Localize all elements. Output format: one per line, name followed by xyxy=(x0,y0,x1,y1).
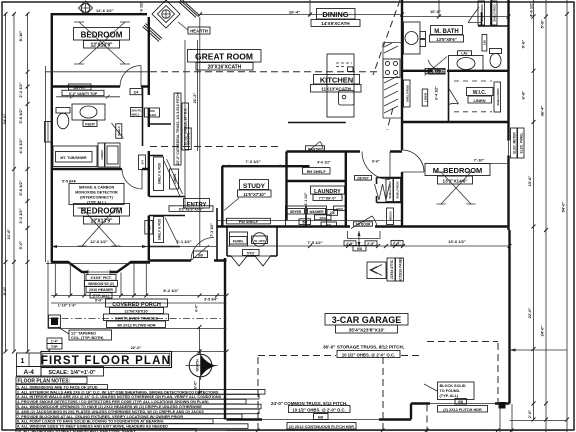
svg-text:2/8 PKT: 2/8 PKT xyxy=(357,176,369,180)
svg-text:8'-2 1/4": 8'-2 1/4" xyxy=(163,288,178,293)
svg-text:2'-8": 2'-8" xyxy=(393,241,401,245)
wall bath/bedroom3 xyxy=(51,168,150,170)
note 10 xyxy=(16,429,196,432)
door pantry xyxy=(309,142,323,151)
dim line top great room-dining xyxy=(200,14,402,16)
svg-text:SHELF/ROD: SHELF/ROD xyxy=(492,4,496,22)
svg-text:22'-0": 22'-0" xyxy=(131,345,142,350)
svg-text:4'X3'6" PICT.: 4'X3'6" PICT. xyxy=(90,276,111,280)
svg-text:3'-5 3/4": 3'-5 3/4" xyxy=(204,298,218,302)
svg-text:12'-6 1/2": 12'-6 1/2" xyxy=(90,239,108,244)
dim line left outer xyxy=(5,13,7,352)
label linen rotated wic xyxy=(422,89,428,106)
dim extension line left interior xyxy=(45,66,47,262)
door garage house xyxy=(351,216,377,229)
front door panel and arc xyxy=(191,238,214,261)
svg-text:(TYP. ALL): (TYP. ALL) xyxy=(440,394,460,398)
svg-text:SHELF/ROD: SHELF/ROD xyxy=(480,4,484,22)
door tag 5/6 hall xyxy=(299,219,311,225)
svg-text:(TYP. ALL): (TYP. ALL) xyxy=(93,294,110,298)
svg-text:PAN: PAN xyxy=(320,216,326,220)
wall mbath/wic xyxy=(402,70,509,72)
svg-text:LIN: LIN xyxy=(483,40,487,45)
svg-text:NORTH: NORTH xyxy=(196,359,200,372)
svg-text:6. AND (2) JACKS/KINGS IN 2X6: 6. AND (2) JACKS/KINGS IN 2X6 PLATES UNL… xyxy=(17,410,204,414)
wall wic/mbedroom xyxy=(402,121,509,123)
svg-text:LINEN: LINEN xyxy=(474,98,486,103)
mbath toilet xyxy=(490,49,502,68)
svg-text:COL. (TYP. BOTH): COL. (TYP. BOTH) xyxy=(71,336,104,340)
room label bedroom 3 xyxy=(74,204,130,247)
dim line garage top xyxy=(227,245,510,247)
wall garage south west segment xyxy=(227,418,412,420)
label pantry xyxy=(306,146,325,152)
rotated dim texts left column xyxy=(2,30,23,295)
room label 3-car garage xyxy=(325,314,408,334)
sheet ref bubble xyxy=(17,353,42,367)
dim ticks right xyxy=(532,12,570,422)
svg-text:7'7"X6'-0": 7'7"X6'-0" xyxy=(319,197,337,201)
room label kitchen xyxy=(311,75,362,93)
label rh shelf xyxy=(303,168,331,175)
svg-text:4'-0 1/2": 4'-0 1/2" xyxy=(18,138,23,153)
label covered porch xyxy=(104,299,169,328)
ceiling fan symbol bedroom 2 xyxy=(79,1,93,15)
door tag 2/8 pkt hall xyxy=(355,176,372,181)
svg-text:SHELF/ROD: SHELF/ROD xyxy=(496,88,500,106)
svg-text:12'-6 1/2": 12'-6 1/2" xyxy=(96,8,114,13)
note 8 xyxy=(16,419,213,424)
toilet bath2 xyxy=(56,108,70,129)
wall hall west thin xyxy=(184,40,186,208)
linen closet washer dryer xyxy=(98,143,120,167)
svg-text:8'-10": 8'-10" xyxy=(18,30,23,41)
label shelf rod lower closet xyxy=(145,217,178,245)
scale label xyxy=(41,367,104,377)
svg-text:5'-5 AFF: 5'-5 AFF xyxy=(62,180,77,184)
svg-text:7'-10": 7'-10" xyxy=(474,158,485,163)
svg-text:TYP.: TYP. xyxy=(51,345,58,349)
mbath tub xyxy=(404,22,426,54)
door tag 2/4 bath xyxy=(130,89,142,95)
svg-text:3. ALL INTERIOR WALLS ARE 2X4: 3. ALL INTERIOR WALLS ARE 2X4 @ 16" O.C.… xyxy=(17,395,222,399)
bath wc closet door xyxy=(112,123,124,139)
svg-text:SCALE: 1/4"=1'-0": SCALE: 1/4"=1'-0" xyxy=(48,370,96,376)
mech triangles xyxy=(231,256,271,266)
wall garage south east segment xyxy=(411,402,510,404)
svg-text:WALL: WALL xyxy=(132,113,141,117)
svg-text:2/8: 2/8 xyxy=(327,223,332,227)
mbr closet walls xyxy=(377,178,403,203)
dim line bottom long xyxy=(226,430,567,432)
dim line right mid xyxy=(545,0,547,432)
svg-text:7'-3 1/2": 7'-3 1/2" xyxy=(210,223,214,237)
label attic access rotated xyxy=(367,257,404,282)
svg-text:5'-8": 5'-8" xyxy=(540,20,545,29)
svg-text:1'-4": 1'-4" xyxy=(51,340,59,344)
garage overhead door 1 dashed track xyxy=(258,356,420,432)
svg-text:6/8: 6/8 xyxy=(458,400,463,404)
wall bedroom2 east / hall xyxy=(148,17,150,261)
dim line mbedroom xyxy=(448,163,509,165)
svg-text:11'5"X7'10": 11'5"X7'10" xyxy=(243,192,266,197)
svg-text:SMOKE & CARBON: SMOKE & CARBON xyxy=(79,186,115,190)
door wic closet xyxy=(449,88,459,105)
svg-text:VENT: VENT xyxy=(85,123,96,127)
fireplace hearth diamond xyxy=(152,0,180,28)
tub bath2 xyxy=(53,146,97,167)
kitchen counter edge xyxy=(383,43,402,119)
wall top bedroom2 xyxy=(51,13,147,15)
svg-text:W.I.C.: W.I.C. xyxy=(473,90,487,96)
svg-text:SHELF & ROD: SHELF & ROD xyxy=(158,218,162,240)
label hall door 6/0 xyxy=(185,128,191,150)
floor plan notes heading xyxy=(16,377,87,385)
svg-text:W/ 2X12 PLYWD HDR: W/ 2X12 PLYWD HDR xyxy=(117,323,156,327)
wall laundry east xyxy=(345,152,347,227)
svg-text:5'-0": 5'-0" xyxy=(18,241,23,250)
svg-text:9'-6": 9'-6" xyxy=(521,40,526,49)
svg-text:KITCHEN: KITCHEN xyxy=(320,76,353,85)
wall garage east xyxy=(508,230,510,404)
window ticks right wall xyxy=(507,140,510,156)
title first floor plan xyxy=(41,352,172,368)
svg-text:ELEC. METER: ELEC. METER xyxy=(512,132,516,154)
svg-text:24'-0": 24'-0" xyxy=(540,325,545,336)
svg-text:SHELF/ROD: SHELF/ROD xyxy=(405,84,409,102)
garage overhead door 2 dashed track xyxy=(427,342,498,432)
door tag 2/8 laundry xyxy=(327,210,338,216)
svg-text:FLOOR PLAN NOTES:: FLOOR PLAN NOTES: xyxy=(18,379,71,385)
dim line garage right xyxy=(510,349,568,351)
linen strip mbath xyxy=(482,35,487,52)
dim line left mid xyxy=(13,13,15,352)
svg-text:DRYER: DRYER xyxy=(290,210,302,214)
svg-text:2/4: 2/4 xyxy=(141,160,145,165)
svg-text:PW SHELF: PW SHELF xyxy=(239,220,259,224)
dim line porch upper xyxy=(51,295,227,297)
sheet number a-4 xyxy=(17,367,42,377)
svg-text:BEDROOM: BEDROOM xyxy=(81,31,123,40)
wall left exterior xyxy=(51,13,53,262)
ceiling line bedroom2 thin xyxy=(45,71,150,73)
svg-text:1'-10" 1'-6": 1'-10" 1'-6" xyxy=(58,304,77,308)
wall house/garage long xyxy=(217,225,510,227)
svg-text:13'5"X9'6": 13'5"X9'6" xyxy=(436,37,456,42)
vanity sink bath2 xyxy=(72,104,105,127)
svg-text:26'-4": 26'-4" xyxy=(289,10,300,15)
svg-text:1: 1 xyxy=(21,358,25,365)
rotated tag mech garage xyxy=(387,208,394,225)
dim line top mbath xyxy=(403,0,509,17)
dim line entry xyxy=(150,246,217,248)
svg-text:4. PROVIDE SMOKE DETECTORS / C: 4. PROVIDE SMOKE DETECTORS / CO DETECTOR… xyxy=(17,400,209,404)
door tag mbath pocket xyxy=(425,69,445,74)
wall garage jog xyxy=(410,404,412,420)
room label entry xyxy=(169,199,213,212)
svg-text:1. ALL DIMENSIONS ARE TO FACE: 1. ALL DIMENSIONS ARE TO FACE OF STUD xyxy=(17,385,98,389)
kitchen island xyxy=(327,54,354,117)
svg-text:34'-0": 34'-0" xyxy=(2,113,7,124)
svg-text:9'-0": 9'-0" xyxy=(95,298,103,302)
svg-text:5'-6 1/2": 5'-6 1/2" xyxy=(18,180,23,195)
wall firewall north face xyxy=(217,220,402,222)
wall hall north xyxy=(287,150,403,152)
svg-text:3'-6 1/2": 3'-6 1/2" xyxy=(18,108,23,123)
wall tag 2/4 xyxy=(139,155,146,170)
svg-text:LAV: LAV xyxy=(461,52,468,56)
fireplace diagonal walls xyxy=(143,24,163,42)
wic rod box east xyxy=(494,82,501,112)
dim line bottom right xyxy=(500,404,567,432)
svg-text:7. PROVIDE BLOCKING AT ALL CEI: 7. PROVIDE BLOCKING AT ALL CEILING FIXTU… xyxy=(17,415,183,419)
svg-text:2/4: 2/4 xyxy=(134,91,139,95)
note 3 xyxy=(16,394,259,399)
svg-text:STUDY: STUDY xyxy=(243,183,266,190)
kitchen counter hatch xyxy=(384,43,398,113)
note 5 xyxy=(16,404,261,409)
note 7 xyxy=(16,414,242,419)
label front door 3/0 xyxy=(194,251,208,258)
wall right exterior upper xyxy=(507,0,509,230)
note 6 xyxy=(16,409,259,414)
wall great room south / study top xyxy=(222,165,310,167)
svg-text:9'2"X6'8"X5'9": 9'2"X6'8"X5'9" xyxy=(179,207,204,211)
wall wic divider xyxy=(448,72,450,122)
svg-text:5'X3': 5'X3' xyxy=(247,252,255,256)
door arc bedroom2 xyxy=(120,66,141,87)
svg-text:SHELF: SHELF xyxy=(117,126,121,136)
wall bay window bedroom3 xyxy=(51,262,150,272)
svg-text:14'X9'XCATH: 14'X9'XCATH xyxy=(321,21,350,26)
svg-text:5'-6 1/2": 5'-6 1/2" xyxy=(140,1,144,15)
svg-text:54'-0": 54'-0" xyxy=(561,201,566,212)
svg-text:6/8: 6/8 xyxy=(357,247,362,251)
svg-text:35'4"X23'8"X10': 35'4"X23'8"X10' xyxy=(349,328,385,334)
wall study east xyxy=(285,152,287,221)
svg-text:13'-6 1/2": 13'-6 1/2" xyxy=(448,239,466,244)
dim ticks garage top xyxy=(308,244,512,248)
svg-text:36'-4": 36'-4" xyxy=(540,105,545,116)
dim line porch lower 22'-0" xyxy=(48,351,227,353)
svg-text:2/6: 2/6 xyxy=(148,225,152,230)
svg-text:PANTRY: PANTRY xyxy=(308,147,323,151)
bath wall labels xyxy=(62,84,104,96)
svg-text:36'-0" STORAGE TRUSS, 8/12 PIT: 36'-0" STORAGE TRUSS, 8/12 PITCH, xyxy=(323,345,404,350)
wall closet stub xyxy=(150,123,171,125)
door tag 2/8 garage door xyxy=(354,222,373,227)
fireplace fan symbol xyxy=(162,10,170,18)
svg-text:(INTERCONNECT): (INTERCONNECT) xyxy=(80,196,113,200)
svg-text:6'-8": 6'-8" xyxy=(521,91,526,100)
kitchen cathedral dashed diagonal xyxy=(373,0,400,75)
svg-text:M. BATH: M. BATH xyxy=(434,29,459,35)
svg-text:(2) 2X12 FLITCH HDR: (2) 2X12 FLITCH HDR xyxy=(443,408,482,412)
svg-text:12" TAPERED: 12" TAPERED xyxy=(71,332,96,336)
svg-text:(2) 2X12 CONTINUOUS FLITCH HDR: (2) 2X12 CONTINUOUS FLITCH HDR xyxy=(289,425,354,429)
label shelf rod hall closet xyxy=(154,157,183,196)
ceiling break line great room dashed xyxy=(150,71,380,73)
room label wic xyxy=(467,88,494,104)
svg-text:4'-6 1/2": 4'-6 1/2" xyxy=(529,2,534,17)
svg-text:WASHER: WASHER xyxy=(310,210,325,214)
label shelf rod mbr closet xyxy=(386,179,401,202)
svg-text:LINEN: LINEN xyxy=(100,151,104,160)
svg-text:BOX: BOX xyxy=(336,207,343,211)
svg-text:LINEN: LINEN xyxy=(173,174,177,184)
room label laundry xyxy=(311,186,345,201)
svg-text:22'-0": 22'-0" xyxy=(527,307,532,318)
room label dining xyxy=(311,9,360,27)
entry east wall xyxy=(216,208,218,261)
svg-text:10 1/2" OHBS. @ 2'-0" O.C.: 10 1/2" OHBS. @ 2'-0" O.C. xyxy=(342,352,395,357)
porch column xyxy=(49,315,61,328)
rotated dim texts right column xyxy=(521,2,566,419)
door mbedroom xyxy=(402,150,424,172)
svg-text:BLOCK SOLID: BLOCK SOLID xyxy=(440,384,466,388)
svg-text:(TYP. ALL): (TYP. ALL) xyxy=(87,200,107,204)
wic rod box west xyxy=(404,80,411,107)
room label m bedroom xyxy=(425,164,490,205)
dim ticks left xyxy=(4,12,30,354)
label plumbing wall xyxy=(131,108,144,117)
svg-text:4'-0 1/2": 4'-0 1/2" xyxy=(317,161,331,165)
dim ext line dining west xyxy=(309,0,311,17)
svg-text:10 1/2" OHBS. @ 2'-0" O.C.: 10 1/2" OHBS. @ 2'-0" O.C. xyxy=(292,407,345,412)
svg-text:2/8 PKT: 2/8 PKT xyxy=(73,86,86,90)
room label great room xyxy=(188,50,262,71)
svg-text:HEARTH: HEARTH xyxy=(190,29,207,34)
svg-text:2. ALL EXTERIOR WALLS ARE 2X6: 2. ALL EXTERIOR WALLS ARE 2X6 @ 16" O.C.… xyxy=(17,390,219,394)
svg-text:3-CAR GARAGE: 3-CAR GARAGE xyxy=(332,315,402,325)
svg-text:WINDOW W/ (2): WINDOW W/ (2) xyxy=(88,282,114,286)
wall garage west xyxy=(224,258,226,420)
dim vertical porch 6'-0" xyxy=(199,327,201,393)
wall laundry north xyxy=(287,180,346,182)
dim line left inner xyxy=(27,13,29,352)
mbath closet door swing xyxy=(468,7,481,23)
door arc bedroom3 xyxy=(122,169,142,189)
wall study west xyxy=(221,166,223,227)
note 9 xyxy=(16,424,248,429)
svg-text:LINEN: LINEN xyxy=(423,93,427,102)
closet walls hall xyxy=(149,156,185,247)
svg-text:4'-1 1/2": 4'-1 1/2" xyxy=(304,192,308,205)
label plmb box xyxy=(145,108,160,117)
label smoke detector bedroom3 xyxy=(62,180,124,205)
svg-text:RH SHELF: RH SHELF xyxy=(307,170,327,174)
svg-text:6'-1 1/2": 6'-1 1/2" xyxy=(176,239,191,244)
mbath vanity xyxy=(449,51,484,71)
label elec panel rotated xyxy=(511,128,525,158)
room label study xyxy=(238,180,272,198)
svg-text:FURN.: FURN. xyxy=(233,240,244,244)
svg-text:2'-5": 2'-5" xyxy=(367,242,375,246)
label garage storage truss xyxy=(323,345,404,358)
svg-text:GREAT ROOM: GREAT ROOM xyxy=(195,52,253,62)
door laundry hall xyxy=(362,152,390,180)
svg-text:10'-0": 10'-0" xyxy=(430,9,441,14)
svg-text:6'-0": 6'-0" xyxy=(193,381,198,390)
svg-text:A-4: A-4 xyxy=(23,369,34,376)
label shelf rod mbath closets xyxy=(478,1,497,25)
dim line right inner xyxy=(533,0,535,420)
garage door sill west xyxy=(262,419,379,421)
svg-text:22'X6'X8'X10': 22'X6'X8'X10' xyxy=(125,310,149,314)
corner shower mbath xyxy=(425,57,448,76)
svg-text:7'-5 1/2": 7'-5 1/2" xyxy=(307,240,322,245)
mech closet xyxy=(227,227,277,257)
wall bedroom2/bath xyxy=(51,85,150,87)
svg-text:COVERED PORCH: COVERED PORCH xyxy=(112,302,161,308)
note 1 xyxy=(16,385,108,390)
svg-text:7'-3 1/2": 7'-3 1/2" xyxy=(245,159,260,164)
garage corner block filled xyxy=(499,402,506,409)
window ticks bay xyxy=(88,270,110,274)
wall bath east plumbing xyxy=(142,87,144,146)
svg-text:11'-6": 11'-6" xyxy=(6,229,11,240)
svg-text:MT. TUB/SHWR: MT. TUB/SHWR xyxy=(60,156,87,160)
svg-text:ELEC. PANEL: ELEC. PANEL xyxy=(519,133,523,154)
svg-text:5. ALL WINDOW/DOOR OPENINGS TO: 5. ALL WINDOW/DOOR OPENINGS TO HAVE (2) … xyxy=(17,405,202,409)
laundry washer dryer xyxy=(286,206,347,227)
window box left wall xyxy=(45,122,52,143)
wall pantry north xyxy=(288,122,346,124)
label pw shelf xyxy=(227,218,271,224)
wic rod dashes xyxy=(454,81,492,112)
svg-text:6'-6": 6'-6" xyxy=(372,160,380,164)
svg-text:20'X16'XCATH: 20'X16'XCATH xyxy=(208,65,242,71)
label cathedral truss rotated xyxy=(174,93,189,165)
svg-text:2X10 HEADER: 2X10 HEADER xyxy=(89,288,113,292)
label garage common truss xyxy=(271,401,356,429)
svg-text:LAUNDRY: LAUNDRY xyxy=(314,189,341,195)
svg-text:13'-6": 13'-6" xyxy=(527,175,532,186)
svg-text:9. ALL WINDOW SIZES TO MEET EG: 9. ALL WINDOW SIZES TO MEET EGRESS AND E… xyxy=(17,425,168,429)
label tapered column xyxy=(47,327,112,349)
svg-text:21'-2": 21'-2" xyxy=(192,92,197,103)
svg-text:SHELF/ROD: SHELF/ROD xyxy=(396,181,400,199)
svg-text:FIRST FLOOR PLAN: FIRST FLOOR PLAN xyxy=(41,355,171,367)
svg-text:M. BEDROOM: M. BEDROOM xyxy=(433,166,483,175)
wall entry front xyxy=(150,259,227,261)
svg-text:MECH: MECH xyxy=(389,212,393,221)
range kitchen xyxy=(383,59,400,78)
svg-text:6/8: 6/8 xyxy=(318,416,323,420)
svg-text:6'-4 1/2": 6'-4 1/2" xyxy=(435,86,439,100)
note 2 xyxy=(16,390,265,395)
water heater xyxy=(252,233,268,247)
svg-text:TO FOUND.: TO FOUND. xyxy=(440,389,461,393)
svg-text:ACCESS PANEL: ACCESS PANEL xyxy=(399,257,403,282)
label block solid xyxy=(424,382,488,412)
label hearth xyxy=(178,22,210,34)
svg-text:22X54 ATTIC: 22X54 ATTIC xyxy=(390,259,394,279)
furnace xyxy=(230,232,248,246)
room label m bath xyxy=(430,26,464,43)
ceiling break line hall dashed xyxy=(150,146,278,148)
svg-text:2'-1 1/2": 2'-1 1/2" xyxy=(18,82,23,97)
svg-text:SHELF & ROD: SHELF & ROD xyxy=(158,162,162,184)
svg-text:2/8 PKT: 2/8 PKT xyxy=(429,69,441,73)
door study xyxy=(224,198,239,211)
dim line study xyxy=(224,165,286,167)
garage door threshold step xyxy=(348,231,381,239)
porch north edge line xyxy=(46,263,150,265)
bay window extension lines xyxy=(55,264,146,297)
label bay window header xyxy=(85,275,118,299)
wall kitchen east / master suite west xyxy=(401,0,403,227)
